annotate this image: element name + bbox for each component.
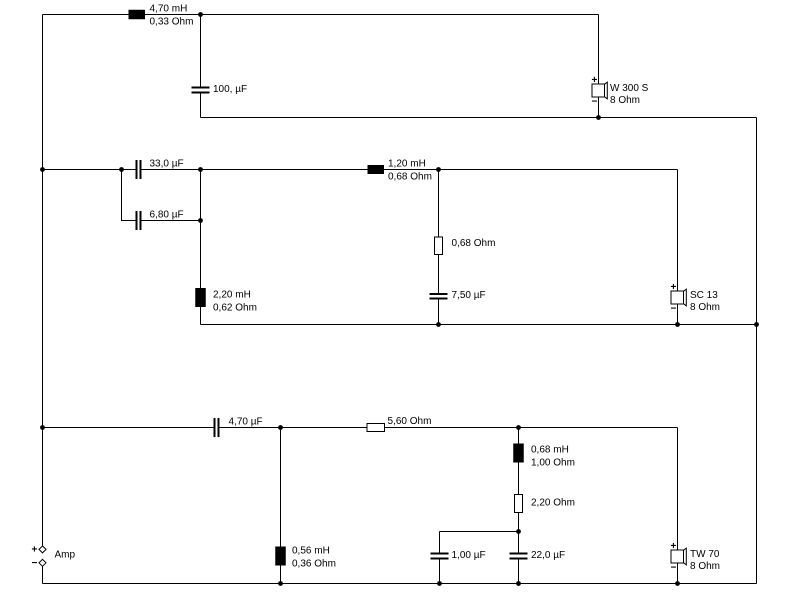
- wire R1-C4 branch: [438, 170, 440, 325]
- inductor L2 2,20 mH: [195, 288, 206, 307]
- svg-text:+: +: [592, 75, 598, 86]
- inductor L5 0,68 mH: [513, 444, 524, 463]
- resistor R3 2,20 Ohm: [515, 495, 523, 513]
- svg-text:−: −: [32, 558, 38, 569]
- svg-text:0,62 Ohm: 0,62 Ohm: [213, 303, 257, 314]
- svg-text:+: +: [671, 282, 677, 293]
- node L4 return: [278, 581, 283, 586]
- svg-text:8 Ohm: 8 Ohm: [610, 95, 640, 106]
- capacitor C5 4,70 uF: [214, 418, 220, 437]
- svg-text:−: −: [671, 563, 677, 574]
- wire SC13 drop: [677, 170, 679, 325]
- svg-text:0,36 Ohm: 0,36 Ohm: [292, 559, 336, 570]
- speaker SC 13: [671, 282, 721, 315]
- wire top rail: [43, 14, 599, 16]
- node C3 rejoin: [198, 218, 203, 223]
- node mid rail / R1: [436, 167, 441, 172]
- node mid rail / L2: [198, 167, 203, 172]
- wire left vertical bus: [42, 15, 44, 547]
- svg-text:4,70 µF: 4,70 µF: [229, 417, 263, 428]
- svg-text:0,68 mH: 0,68 mH: [531, 445, 569, 456]
- wire mid rail: [43, 169, 678, 171]
- svg-text:0,56 mH: 0,56 mH: [292, 546, 330, 557]
- svg-text:100, µF: 100, µF: [213, 84, 247, 95]
- capacitor C1 100 uF: [192, 87, 210, 94]
- wire C1 branch: [200, 15, 202, 118]
- wire L2 branch: [200, 170, 202, 325]
- resistor R2 5,60 Ohm: [367, 424, 385, 432]
- wire mid return rail: [201, 324, 757, 326]
- wire C6 parallel branch: [440, 532, 519, 584]
- inductor L4 0,56 mH: [275, 547, 286, 566]
- wire bottom rail: [43, 427, 678, 429]
- node TW70 return: [675, 581, 680, 586]
- node R3 / C6 C7 split: [516, 529, 521, 534]
- svg-text:5,60 Ohm: 5,60 Ohm: [388, 416, 432, 427]
- capacitor C3 6,80 uF: [136, 211, 142, 230]
- node left bus / mid rail: [40, 167, 45, 172]
- node C4 return: [436, 322, 441, 327]
- wire L5-R3 branch: [518, 428, 520, 584]
- svg-text:22,0 µF: 22,0 µF: [531, 550, 565, 561]
- svg-text:8 Ohm: 8 Ohm: [690, 561, 720, 572]
- svg-text:6,80 µF: 6,80 µF: [150, 210, 184, 221]
- svg-text:2,20 Ohm: 2,20 Ohm: [531, 498, 575, 509]
- node C6 return: [437, 581, 442, 586]
- svg-text:Amp: Amp: [55, 550, 76, 561]
- svg-text:−: −: [671, 304, 677, 315]
- node SC13 return: [675, 322, 680, 327]
- svg-text:33,0 µF: 33,0 µF: [150, 159, 184, 170]
- capacitor C2 33,0 uF: [136, 160, 142, 179]
- svg-text:1,20 mH: 1,20 mH: [388, 159, 426, 170]
- svg-text:−: −: [592, 97, 598, 108]
- capacitor C7 22,0 uF: [510, 553, 528, 560]
- node left bus / bottom rail: [40, 425, 45, 430]
- svg-text:1,00 Ohm: 1,00 Ohm: [531, 458, 575, 469]
- wire right vertical bus: [756, 118, 758, 584]
- svg-text:1,00 µF: 1,00 µF: [452, 550, 486, 561]
- resistor R1 0,68 Ohm: [435, 237, 443, 255]
- node top rail / C1: [198, 12, 203, 17]
- svg-text:W 300 S: W 300 S: [610, 83, 649, 94]
- node woofer return: [596, 115, 601, 120]
- svg-text:+: +: [671, 541, 677, 552]
- capacitor C6 1,00 uF: [431, 553, 449, 560]
- node C7 return: [516, 581, 521, 586]
- svg-text:0,33 Ohm: 0,33 Ohm: [150, 17, 194, 28]
- node bottom rail / L5: [516, 425, 521, 430]
- svg-text:TW 70: TW 70: [690, 549, 720, 560]
- svg-text:7,50 µF: 7,50 µF: [452, 290, 486, 301]
- svg-text:0,68 Ohm: 0,68 Ohm: [388, 172, 432, 183]
- inductor L3 1,20 mH: [368, 165, 385, 174]
- wire L4 branch: [280, 428, 282, 584]
- speaker W 300 S: [592, 75, 649, 108]
- node mid return / right bus: [754, 322, 759, 327]
- svg-text:0,68 Ohm: 0,68 Ohm: [452, 238, 496, 249]
- svg-text:SC 13: SC 13: [690, 290, 718, 301]
- amp minus terminal: [39, 559, 46, 566]
- svg-text:8 Ohm: 8 Ohm: [690, 302, 720, 313]
- wire top return rail: [201, 117, 757, 119]
- svg-text:+: +: [32, 545, 38, 556]
- speaker TW 70: [671, 541, 721, 574]
- wire minus terminal to bottom rail: [42, 567, 44, 584]
- node bottom rail / L4: [278, 425, 283, 430]
- wire C3 parallel branch: [122, 170, 201, 221]
- inductor L1 4,70 mH: [129, 10, 146, 20]
- svg-text:2,20 mH: 2,20 mH: [213, 290, 251, 301]
- svg-text:4,70 mH: 4,70 mH: [150, 4, 188, 15]
- wire TW70 drop: [677, 428, 679, 584]
- wire bottom return rail: [43, 583, 757, 585]
- node C2-C3 split: [119, 167, 124, 172]
- capacitor C4 7,50 uF: [430, 293, 448, 300]
- wire woofer drop: [598, 15, 600, 118]
- amp plus terminal: [39, 546, 46, 553]
